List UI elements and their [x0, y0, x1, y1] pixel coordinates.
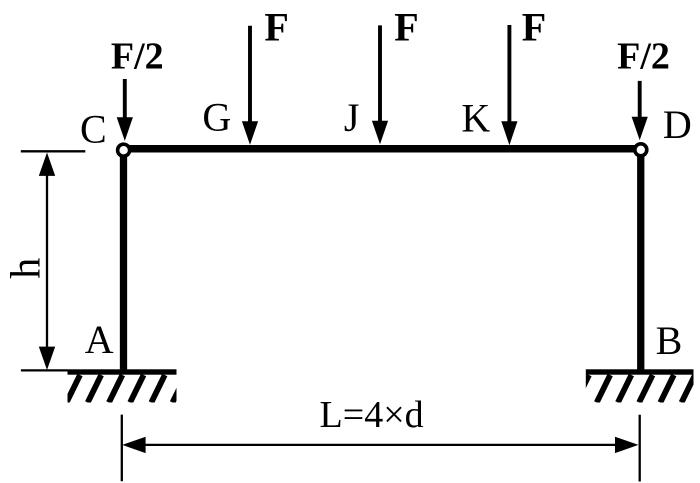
svg-text:L=4×d: L=4×d: [320, 394, 424, 436]
svg-text:K: K: [461, 96, 490, 141]
svg-text:F: F: [522, 4, 546, 49]
svg-text:A: A: [85, 317, 114, 362]
svg-text:B: B: [656, 318, 683, 363]
svg-text:C: C: [80, 107, 107, 152]
svg-text:F: F: [394, 4, 418, 49]
svg-text:F: F: [264, 4, 288, 49]
svg-text:J: J: [344, 95, 360, 140]
svg-text:F/2: F/2: [111, 36, 164, 78]
svg-text:F/2: F/2: [617, 36, 670, 78]
svg-text:h: h: [4, 258, 50, 279]
svg-text:D: D: [663, 102, 692, 147]
svg-text:G: G: [202, 95, 231, 140]
